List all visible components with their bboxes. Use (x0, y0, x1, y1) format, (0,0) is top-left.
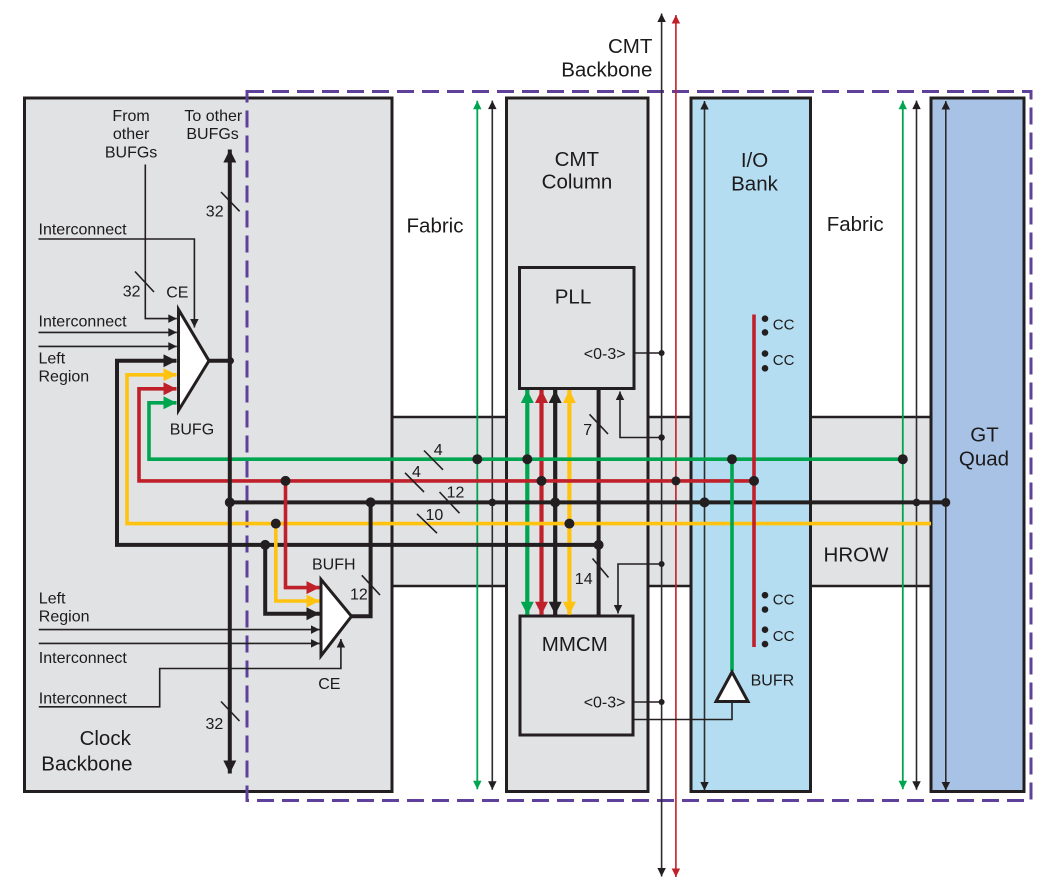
svg-text:CE: CE (318, 676, 340, 693)
svg-text:<0-3>: <0-3> (584, 346, 626, 363)
fabric clock vertical (black, left) (491, 101, 493, 790)
CMT 7/14 clock line (597, 389, 601, 617)
I/O bank clock vertical (704, 101, 706, 791)
wire red drop to BUFH (286, 481, 320, 588)
svg-text:I/O: I/O (741, 149, 768, 172)
CMT yellow vertical PLL-MMCM (567, 390, 571, 615)
wire HROW black clock 12 (230, 500, 946, 504)
wire BUFG backbone vertical 32 (228, 150, 232, 774)
junction dots (472, 454, 482, 464)
wire red CC line (752, 315, 756, 648)
label CMT Backbone top (561, 35, 653, 82)
svg-text:10: 10 (426, 507, 444, 524)
svg-text:BUFH: BUFH (312, 557, 356, 574)
svg-text:CMT: CMT (608, 35, 653, 58)
wire MMCM to BUFR (633, 702, 732, 720)
svg-text:Left: Left (39, 350, 66, 367)
BUFH buffer (321, 579, 352, 655)
wire Interconnect to BUFH CE (39, 639, 341, 707)
HROW band left segment (391, 417, 507, 586)
wire backbone feed to MMCM (618, 564, 662, 614)
wire green clock 4 (149, 403, 903, 459)
svg-text:32: 32 (206, 716, 224, 733)
HROW band middle segment (648, 417, 691, 586)
svg-text:12: 12 (350, 587, 368, 604)
wire MMCM 0-3 output to backbone (633, 701, 662, 703)
CMT backbone vertical (black) (661, 14, 663, 877)
bus width slash 12 BUFH (362, 575, 380, 595)
CMT black vertical PLL-MMCM (553, 390, 557, 615)
svg-text:Left: Left (39, 590, 66, 607)
label CMT Column (542, 148, 613, 193)
bus width slash 32 from other BUFGs (135, 272, 154, 293)
bus width slash 32 bottom (221, 702, 240, 722)
svg-text:Fabric: Fabric (407, 215, 464, 238)
bus width slash 12 (440, 492, 460, 513)
svg-text:CC: CC (773, 628, 795, 645)
wire yellow drop to BUFH (276, 524, 320, 601)
wire Interconnect to BUFG input 2 (39, 331, 177, 333)
PLL box (520, 268, 635, 389)
svg-text:CC: CC (773, 317, 795, 334)
svg-text:Fabric: Fabric (827, 213, 884, 236)
svg-text:Interconnect: Interconnect (39, 691, 128, 708)
svg-text:BUFGs: BUFGs (186, 126, 238, 143)
CMT green vertical PLL-MMCM (525, 390, 529, 615)
wire Interconnect to BUFG CE (39, 239, 195, 328)
svg-text:7: 7 (583, 422, 592, 439)
wire PLL 0-3 output to backbone (634, 352, 662, 354)
CMT column box (507, 98, 649, 792)
svg-text:32: 32 (206, 203, 224, 220)
MMCM box (520, 616, 633, 735)
svg-text:Interconnect: Interconnect (39, 222, 128, 239)
svg-text:From: From (112, 108, 149, 125)
BUFR buffer (716, 672, 748, 702)
svg-text:Interconnect: Interconnect (39, 650, 128, 667)
wire black drop to BUFH (265, 545, 319, 614)
svg-text:12: 12 (447, 484, 465, 501)
svg-text:HROW: HROW (824, 544, 890, 567)
CC pin dots group 1 (762, 315, 769, 322)
label From other BUFGs (105, 108, 157, 162)
CC pin dots group 2 (762, 350, 769, 357)
I/O bank box (691, 98, 811, 792)
svg-text:Quad: Quad (959, 448, 1009, 471)
svg-text:Backbone: Backbone (561, 59, 652, 82)
svg-text:4: 4 (412, 464, 421, 481)
wire green to BUFR (730, 459, 734, 671)
svg-text:PLL: PLL (555, 285, 591, 308)
fabric clock vertical (green, left) (476, 101, 478, 790)
wire backbone feed to PLL (620, 392, 662, 438)
GT quad box (931, 98, 1024, 792)
bus width slash 7 (590, 414, 609, 434)
svg-text:CMT: CMT (555, 148, 600, 171)
svg-text:Column: Column (542, 170, 613, 193)
svg-text:CC: CC (773, 592, 795, 609)
dashed region boundary (247, 92, 1031, 801)
label I/O Bank (731, 149, 778, 196)
wire yellow clock 10 (127, 375, 931, 524)
svg-text:Region: Region (39, 369, 90, 386)
svg-text:Bank: Bank (731, 173, 778, 196)
clock backbone box (25, 98, 393, 792)
svg-text:<0-3>: <0-3> (584, 695, 626, 712)
wire BUFG output to backbone (209, 359, 230, 363)
CMT red vertical PLL-MMCM (539, 390, 543, 615)
svg-text:other: other (113, 126, 150, 143)
bus width slash 14 (593, 559, 609, 578)
svg-text:CE: CE (166, 285, 188, 302)
label GT Quad (959, 424, 1009, 471)
label Clock Backbone (41, 727, 132, 776)
wire Interconnect to BUFG input 3 (39, 345, 177, 347)
svg-text:BUFR: BUFR (751, 673, 795, 690)
svg-text:GT: GT (970, 424, 999, 447)
svg-text:32: 32 (123, 283, 141, 300)
svg-text:14: 14 (575, 571, 593, 588)
fabric clock vertical (black, right) (916, 101, 918, 790)
svg-text:MMCM: MMCM (542, 633, 608, 656)
GT quad clock vertical (945, 101, 947, 791)
HROW band right segment (810, 417, 931, 586)
label To other BUFGs (184, 108, 242, 143)
svg-text:BUFGs: BUFGs (105, 145, 157, 162)
svg-text:Backbone: Backbone (41, 753, 132, 776)
bus width slash 10 (417, 514, 437, 533)
svg-text:Clock: Clock (80, 727, 132, 750)
wire From other BUFGs to BUFG input (145, 165, 177, 319)
CC pin dots group 3 (762, 592, 769, 599)
BUFG mux (179, 310, 210, 411)
wire red clock 4 (139, 389, 754, 481)
bus width slash 4 green (424, 451, 443, 470)
wire Left Region to BUFH input (39, 629, 320, 631)
bus width slash 4 red (405, 473, 424, 492)
fabric clock vertical (green, right) (902, 101, 904, 790)
bus width slash 32 top (221, 192, 240, 211)
svg-text:4: 4 (434, 442, 443, 459)
svg-text:Interconnect: Interconnect (39, 313, 128, 330)
wire BUFH output to clock 12 (352, 502, 371, 616)
wire Interconnect to BUFH input (39, 642, 320, 644)
CC pin dots group 4 (762, 626, 769, 633)
CMT backbone vertical (red) (675, 15, 677, 877)
svg-text:CC: CC (773, 352, 795, 369)
svg-text:To other: To other (184, 108, 242, 125)
svg-text:BUFG: BUFG (170, 422, 214, 439)
wire left region loop to BUFG and HROW (117, 361, 599, 545)
svg-text:Region: Region (39, 609, 90, 626)
